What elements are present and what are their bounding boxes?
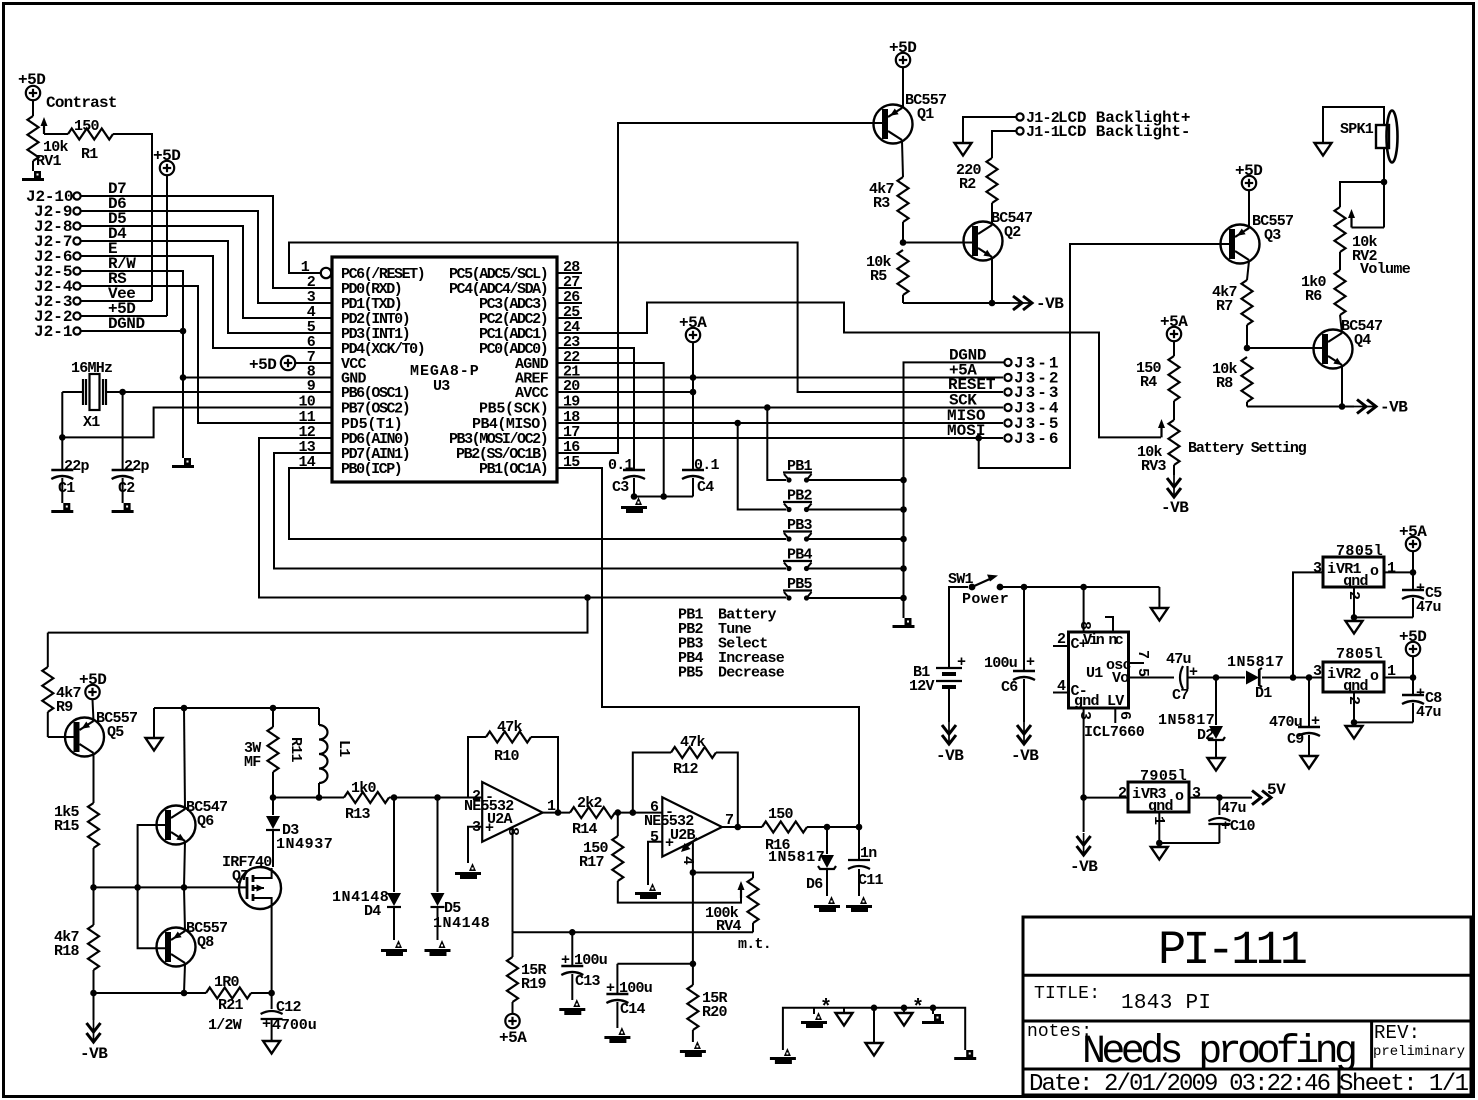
resistor R7: [1212, 280, 1253, 325]
svg-text:3: 3: [1192, 785, 1201, 802]
capacitor C4: [682, 342, 720, 497]
pin 1 bubble: [321, 268, 331, 278]
wire VR3 output: [1189, 797, 1252, 799]
resistor R15: [54, 803, 99, 848]
title block frame: [1023, 917, 1471, 1095]
svg-text:3: 3: [1313, 560, 1322, 577]
pin labels right side: [449, 266, 549, 478]
svg-text:+5D: +5D: [249, 356, 276, 374]
wire +5D stub: [1412, 657, 1414, 678]
wire pin23 to C3: [557, 348, 634, 470]
svg-text:+: +: [561, 952, 570, 969]
mosfet Q7 IRF740: [222, 854, 281, 909]
svg-text:+: +: [485, 820, 494, 837]
node D6 junction: [824, 824, 831, 831]
wire Q6 emitter: [184, 841, 185, 887]
node C6 junction: [1021, 584, 1028, 591]
svg-text:Date: 2/01/2009 03:22:46: Date: 2/01/2009 03:22:46: [1029, 1071, 1331, 1098]
svg-text:gnd: gnd: [1343, 678, 1368, 695]
potentiometer RV2: [1335, 207, 1411, 278]
ground (analog C3): [621, 497, 647, 513]
wire R12 left leg: [633, 753, 671, 813]
svg-text:+: +: [1221, 818, 1230, 835]
wire junction to Q4 base: [1247, 347, 1322, 349]
resistor R12: [671, 734, 716, 778]
svg-text:-VB: -VB: [936, 747, 964, 765]
svg-text:0.1: 0.1: [694, 457, 720, 474]
svg-text:2: 2: [472, 788, 481, 805]
svg-text:PB1(OC1A): PB1(OC1A): [479, 461, 548, 478]
power +5D (Q5): [79, 671, 106, 699]
node Q4 emitter junction: [1339, 403, 1346, 410]
svg-text:U1: U1: [1086, 665, 1103, 682]
crystal X1: [71, 360, 112, 431]
diode D3 1N4937: [266, 798, 332, 868]
connector J3-3: [1004, 384, 1058, 402]
svg-text:+5A: +5A: [679, 314, 707, 332]
ic U3 MEGA8-P box: [332, 257, 557, 482]
wire rail ground stub: [153, 708, 155, 738]
pin stubs left: [310, 288, 332, 468]
node D5 junction: [434, 794, 441, 801]
net -VB (RV3): [1161, 475, 1189, 517]
resistor R1: [68, 118, 113, 163]
wire D5 J2-8 to pin4: [81, 226, 332, 318]
regulator VR1 7805l: [1313, 543, 1396, 600]
wire VR1 output: [1384, 571, 1413, 573]
svg-text:6: 6: [1116, 711, 1133, 720]
svg-text:+5D: +5D: [1235, 162, 1262, 180]
ground (VR3): [1151, 847, 1168, 860]
svg-text:-VB: -VB: [1036, 295, 1064, 313]
resistor R11: [244, 708, 304, 772]
svg-text:-: -: [665, 804, 673, 821]
svg-text:-VB: -VB: [1161, 499, 1189, 517]
svg-text:U3: U3: [433, 378, 450, 395]
ground (C1): [51, 503, 73, 513]
svg-text:2: 2: [1118, 785, 1127, 802]
wire PB3 right: [809, 538, 904, 540]
wire +5A to R4: [1173, 342, 1175, 357]
node R18 bottom junction: [90, 990, 97, 997]
ground (tie A2): [801, 1008, 827, 1028]
connector J2-10: [26, 188, 81, 206]
wire R6 to RV2: [1339, 265, 1341, 270]
wire Q4 emitter: [1341, 365, 1343, 407]
wire PB1 right: [809, 479, 904, 481]
node R12 output junction: [735, 824, 742, 831]
svg-text:+5A: +5A: [1160, 313, 1188, 331]
resistor R4: [1136, 356, 1180, 401]
resistor R6: [1301, 270, 1346, 315]
svg-text:D2: D2: [1197, 727, 1214, 744]
node speaker bottom junction: [1381, 179, 1388, 186]
svg-text:1/2W: 1/2W: [208, 1017, 242, 1034]
op-amp U2A: [464, 782, 556, 842]
wire R/W J2-5 to ground column: [81, 271, 183, 458]
wire C7 to D1: [1188, 677, 1246, 679]
wire DGND J2-1: [81, 330, 183, 332]
svg-text:7805l: 7805l: [1336, 543, 1383, 560]
wire Q7 gate: [239, 886, 247, 888]
wire RESET pin1 to J3-3: [289, 243, 1003, 393]
diode D4 1N4148: [332, 798, 401, 941]
capacitor C1: [51, 458, 89, 503]
op-amp U2B: [644, 797, 733, 865]
svg-text:C2: C2: [118, 480, 135, 497]
wire R15 to junction: [93, 848, 95, 887]
transistor Q6 BC547: [157, 799, 228, 845]
battery B1: [909, 654, 966, 695]
ground (tie tri big): [866, 1008, 883, 1056]
node crystal right junction: [119, 389, 126, 396]
capacitor C2: [112, 458, 150, 503]
svg-text:o: o: [1370, 668, 1379, 685]
title block row line 1: [1023, 974, 1471, 977]
ground (C14): [604, 1027, 630, 1043]
svg-text:C13: C13: [575, 973, 601, 990]
power +5D (Q3): [1235, 162, 1262, 190]
svg-text:i: i: [1327, 561, 1336, 578]
svg-text:+: +: [606, 980, 615, 997]
node Q6 emitter junction: [181, 884, 188, 891]
wire RS J2-4 to pin11: [81, 286, 332, 423]
svg-text:1: 1: [1387, 560, 1396, 577]
node MOSI tap: [975, 435, 982, 442]
wire R11 to node: [272, 772, 274, 798]
resistor R10: [486, 719, 531, 765]
wire backlight pin16 to Q1 base: [557, 123, 883, 453]
node PB2 MISO junction: [734, 420, 741, 427]
node AREF junction: [690, 374, 697, 381]
resistor R16: [762, 806, 824, 866]
svg-text:R2: R2: [959, 176, 976, 193]
svg-text:R10: R10: [494, 748, 520, 765]
wire RV2 top to speaker column: [1340, 182, 1384, 207]
svg-text:+5D: +5D: [1399, 628, 1426, 646]
connector J3-6: [1004, 430, 1058, 448]
pin stubs right: [557, 273, 582, 468]
node PB2 bus: [900, 506, 907, 513]
svg-text:D4: D4: [364, 903, 381, 920]
svg-text:9: 9: [307, 378, 316, 395]
svg-text:+: +: [1311, 713, 1320, 730]
resistor R5: [866, 250, 909, 295]
svg-text:R17: R17: [579, 854, 604, 871]
ground (C9): [1301, 756, 1318, 769]
svg-text:Q7: Q7: [232, 868, 249, 885]
ground (rail): [146, 738, 163, 751]
svg-text:PI-111: PI-111: [1158, 925, 1308, 978]
wire VR1 ground: [1354, 587, 1413, 617]
net -VB (Q4): [1354, 399, 1408, 417]
transistor Q8 BC557: [157, 920, 228, 967]
svg-text:+5A: +5A: [499, 1029, 527, 1047]
svg-text:Q3: Q3: [1264, 227, 1281, 244]
wire VR3 ground: [1159, 812, 1219, 843]
speaker SPK1: [1340, 111, 1398, 163]
wire PB4 right: [809, 568, 904, 570]
capacitor C13: [561, 932, 607, 1000]
wire pin21 AREF to J3-2: [557, 377, 1003, 379]
svg-text:5: 5: [650, 829, 659, 846]
wire pin13 to PB4 row: [274, 453, 786, 569]
transistor Q5 BC557: [65, 710, 137, 757]
wire Q3 collector to R7: [1247, 261, 1249, 280]
net -VB (C6): [1011, 722, 1039, 765]
capacitor C14: [606, 964, 693, 1028]
wire R8 to -VB row: [1246, 402, 1248, 407]
wire ground tie row: [783, 1008, 965, 1050]
node R11 D3 junction: [270, 794, 277, 801]
ground (tie tri1): [836, 1008, 853, 1026]
svg-text:Q8: Q8: [197, 934, 214, 951]
svg-text:150: 150: [74, 118, 100, 135]
node VR1 input junction: [1290, 674, 1297, 681]
svg-text:+: +: [957, 654, 966, 671]
title block sheet divider: [1338, 1069, 1341, 1095]
wire U1 pin6 stub: [1114, 708, 1116, 723]
svg-text:47u: 47u: [1166, 651, 1191, 668]
svg-text:12V: 12V: [909, 678, 935, 695]
ground (J1-2): [955, 143, 972, 156]
wire speaker column: [1383, 148, 1385, 228]
svg-text:Decrease: Decrease: [718, 665, 785, 682]
power +5A (battery divider): [1160, 313, 1188, 341]
svg-text:C6: C6: [1001, 679, 1018, 696]
svg-text:SW1: SW1: [948, 571, 974, 588]
wire pin15 OC1A to C11: [557, 468, 859, 860]
resistor R13: [344, 780, 389, 823]
svg-text:R7: R7: [1216, 298, 1233, 315]
svg-text:-: -: [485, 789, 493, 806]
ground (VR1): [1346, 621, 1363, 634]
connector J2-2: [34, 308, 81, 326]
wire R18 to -VB: [93, 970, 95, 993]
svg-text:0.1: 0.1: [608, 457, 634, 474]
wire U1 pin8: [1083, 587, 1085, 632]
svg-text:R21: R21: [218, 997, 244, 1014]
wire U2A output: [543, 812, 570, 814]
svg-text:R8: R8: [1216, 375, 1233, 392]
wire U2A pin3 to ground: [468, 827, 482, 863]
wire Q8 collector: [184, 964, 185, 993]
connector J2-1: [34, 323, 81, 341]
node R11 rail junction: [270, 705, 277, 712]
svg-text:4700u: 4700u: [272, 1017, 316, 1034]
svg-text:Vin nc: Vin nc: [1083, 632, 1124, 649]
resistor R21: [206, 974, 251, 1034]
svg-text:RV3: RV3: [1141, 458, 1167, 475]
wire PB2 right: [809, 509, 904, 511]
svg-text:PB5: PB5: [678, 665, 704, 682]
node PB3 bus: [900, 536, 907, 543]
ground (tie sq): [922, 1005, 944, 1025]
potentiometer RV3: [1137, 419, 1180, 475]
ground (U2A pin3): [455, 863, 481, 879]
svg-text:Q2: Q2: [1004, 224, 1021, 241]
svg-text:R12: R12: [673, 761, 699, 778]
svg-text:C4: C4: [697, 479, 714, 496]
svg-text:C3: C3: [612, 479, 629, 496]
svg-text:+: +: [665, 835, 674, 852]
ground (R20): [680, 1041, 706, 1057]
diode D1 1N5817: [1227, 654, 1283, 702]
ground (speaker): [1315, 143, 1332, 156]
svg-text:47u: 47u: [1416, 599, 1441, 616]
svg-text:R14: R14: [572, 821, 598, 838]
wire PB5 right: [809, 597, 904, 599]
svg-text:22p: 22p: [64, 458, 90, 475]
wire D4 J2-7 to pin5: [81, 241, 332, 333]
resistor R2: [956, 158, 998, 203]
diode D5 1N4148: [431, 798, 490, 941]
ground (tie tri2): [896, 1005, 913, 1026]
wire Q1 collector to R3: [902, 141, 903, 177]
svg-text:D6: D6: [806, 876, 823, 893]
node L1 junction: [316, 794, 323, 801]
wire RV1 wiper to R1: [44, 133, 68, 135]
power +5D (Q1): [889, 39, 916, 67]
capacitor C12: [261, 993, 316, 1040]
potentiometer RV4: [705, 878, 759, 935]
svg-text:Volume: Volume: [1360, 261, 1411, 278]
ground (U1 top): [1151, 608, 1168, 621]
ic U1 ICL7660: [1069, 621, 1152, 741]
pushbutton PB2: [783, 488, 813, 513]
svg-text:R3: R3: [873, 195, 890, 212]
svg-text:C1: C1: [58, 480, 75, 497]
wire DGND J3-1 to button bus: [904, 362, 1005, 618]
node C11 junction: [856, 824, 863, 831]
svg-text:47k: 47k: [680, 734, 706, 751]
connector J3-1: [1004, 354, 1058, 372]
wire crystal row pin9: [62, 391, 83, 393]
connector J2-9: [34, 203, 81, 221]
title block row line 3: [1023, 1068, 1471, 1071]
wire RV3 bottom: [1173, 465, 1175, 475]
node C3 bottom: [631, 493, 638, 500]
wire U1 supply ground stub: [1158, 587, 1160, 608]
ground (C13): [559, 999, 585, 1015]
wire Q2 collector to R2: [991, 203, 993, 225]
wire bottom rail to R21: [94, 992, 207, 994]
resistor R9: [42, 633, 80, 737]
svg-text:R1: R1: [81, 146, 98, 163]
svg-text:R5: R5: [870, 268, 887, 285]
svg-text:RV1: RV1: [36, 153, 62, 170]
svg-text:100u: 100u: [619, 980, 652, 997]
wire R21 to C12 node: [251, 992, 272, 994]
wire pin24 ADC to battery divider: [557, 303, 1161, 438]
ground (tie left): [770, 1048, 796, 1064]
svg-text:3: 3: [1313, 663, 1322, 680]
svg-text:7905l: 7905l: [1140, 768, 1187, 785]
svg-text:-VB: -VB: [80, 1045, 108, 1063]
node VR1 gnd junction: [1351, 614, 1358, 621]
svg-text:47u: 47u: [1416, 704, 1441, 721]
wire Q6 collector: [184, 708, 185, 809]
node PB5 bus: [900, 595, 907, 602]
node C13 junction: [569, 929, 576, 936]
wire battery to SW1: [949, 587, 968, 668]
node tie junction 1: [871, 1005, 878, 1012]
connector J3-2: [1004, 370, 1058, 388]
svg-text:L1: L1: [335, 740, 352, 757]
wire RV4 bottom: [752, 923, 754, 932]
power +5A (VR1): [1399, 523, 1427, 551]
wire VR2 ground: [1354, 692, 1413, 722]
svg-text:1R0: 1R0: [214, 974, 240, 991]
svg-text:-VB: -VB: [1380, 399, 1408, 417]
svg-text:m.t.: m.t.: [738, 936, 771, 953]
svg-text:100u: 100u: [574, 952, 607, 969]
svg-text:i: i: [1132, 786, 1141, 803]
wire -VB row: [903, 302, 1010, 304]
connector J3-5: [1004, 415, 1058, 433]
wire U1 pin4 stub: [1053, 678, 1069, 695]
node R12 junction: [630, 809, 637, 816]
wire R1 to Vee column: [113, 134, 152, 301]
pin numbers right 28-15: [563, 259, 580, 471]
capacitor C11: [848, 845, 884, 896]
resistor R3: [869, 177, 909, 222]
svg-text:R13: R13: [345, 806, 371, 823]
svg-text:47k: 47k: [497, 719, 523, 736]
svg-text:X1: X1: [83, 414, 100, 431]
wire PB1 left: [767, 408, 786, 481]
svg-text:7: 7: [1134, 650, 1151, 658]
svg-text:+5D: +5D: [79, 671, 106, 689]
wire R10 left leg: [468, 737, 486, 798]
node R15 R18 junction: [90, 884, 97, 891]
wire pin4 to RV4 top: [693, 873, 753, 879]
ground (C11): [846, 896, 872, 912]
wire VR1 input: [1293, 572, 1323, 677]
node Q6 collector rail junction: [181, 705, 188, 712]
node DGND junction: [180, 328, 187, 335]
wire VR3 input: [1084, 797, 1128, 799]
connector J2-5: [34, 263, 81, 281]
node C14 junction: [690, 961, 697, 968]
resistor R8: [1212, 357, 1253, 402]
svg-text:150: 150: [768, 806, 794, 823]
power +5D (VR2): [1399, 628, 1426, 656]
wire R16 to C11: [807, 826, 859, 828]
wire R12 right leg: [716, 753, 738, 828]
node base tie junction: [134, 884, 141, 891]
node U1 pin8 junction: [1080, 584, 1087, 591]
capacitor C10: [1208, 798, 1255, 843]
node C9 junction: [1306, 674, 1313, 681]
wire Q5 collector to R15: [93, 754, 95, 803]
wire pin10 jog: [62, 408, 332, 438]
svg-text:2: 2: [1057, 631, 1066, 648]
resistor R19: [507, 932, 547, 1014]
wire +5D to Q1 emitter: [902, 68, 904, 109]
node Q8 collector junction: [181, 990, 188, 997]
wire VR2 output: [1384, 677, 1413, 679]
svg-text:6: 6: [650, 799, 659, 816]
svg-text:MF: MF: [244, 754, 261, 771]
capacitor C5: [1402, 572, 1442, 617]
svg-text:5V: 5V: [1267, 781, 1286, 799]
wire +5D to J2-2 row: [166, 176, 168, 317]
svg-text:Q1: Q1: [917, 106, 934, 123]
node VR3 gnd junction: [1156, 840, 1163, 847]
svg-text:o: o: [1175, 788, 1184, 805]
wire U1 pin1 stub: [1105, 617, 1113, 632]
